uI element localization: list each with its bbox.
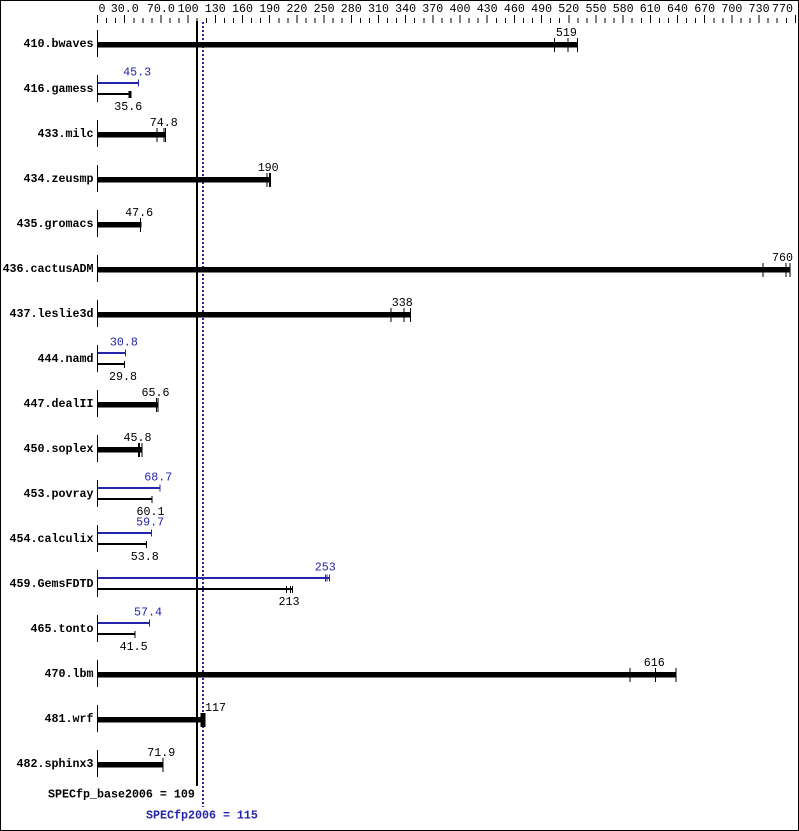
svg-text:465.tonto: 465.tonto <box>31 622 94 636</box>
svg-text:434.zeusmp: 434.zeusmp <box>24 172 94 186</box>
svg-text:41.5: 41.5 <box>120 640 148 654</box>
axis ticks <box>97 15 796 23</box>
svg-text:519: 519 <box>556 26 577 40</box>
svg-text:454.calculix: 454.calculix <box>10 532 94 546</box>
svg-text:453.povray: 453.povray <box>24 487 94 501</box>
svg-text:490: 490 <box>531 2 552 16</box>
svg-text:410.bwaves: 410.bwaves <box>24 37 94 51</box>
svg-text:0: 0 <box>99 2 106 16</box>
svg-text:310: 310 <box>368 2 389 16</box>
svg-text:220: 220 <box>286 2 307 16</box>
svg-text:770: 770 <box>772 2 793 16</box>
svg-text:481.wrf: 481.wrf <box>45 712 94 726</box>
svg-text:45.3: 45.3 <box>123 66 151 80</box>
svg-text:100: 100 <box>178 2 199 16</box>
svg-text:74.8: 74.8 <box>150 116 178 130</box>
svg-text:400: 400 <box>450 2 471 16</box>
svg-text:470.lbm: 470.lbm <box>45 667 94 681</box>
row 437.leslie3d <box>10 296 413 327</box>
row 482.sphinx3 <box>17 746 176 777</box>
svg-text:447.dealII: 447.dealII <box>24 397 94 411</box>
row 447.dealII <box>24 386 170 417</box>
svg-text:190: 190 <box>258 161 279 175</box>
svg-text:30.8: 30.8 <box>110 336 138 350</box>
svg-text:520: 520 <box>558 2 579 16</box>
svg-text:670: 670 <box>694 2 715 16</box>
row 453.povray <box>24 471 173 520</box>
svg-text:190: 190 <box>259 2 280 16</box>
svg-text:730: 730 <box>749 2 770 16</box>
svg-text:416.gamess: 416.gamess <box>24 82 94 96</box>
row 444.namd <box>38 336 138 385</box>
svg-text:160: 160 <box>232 2 253 16</box>
svg-text:580: 580 <box>613 2 634 16</box>
row 410.bwaves <box>24 26 578 57</box>
svg-text:70.0: 70.0 <box>147 2 175 16</box>
svg-text:117: 117 <box>205 701 226 715</box>
svg-text:68.7: 68.7 <box>144 471 172 485</box>
svg-text:482.sphinx3: 482.sphinx3 <box>17 757 94 771</box>
svg-text:550: 550 <box>586 2 607 16</box>
solid reference line SPECfp_base2006 = 109 <box>196 21 198 786</box>
svg-text:71.9: 71.9 <box>147 746 175 760</box>
svg-text:370: 370 <box>422 2 443 16</box>
row 454.calculix <box>10 516 165 565</box>
row 465.tonto <box>31 606 162 655</box>
svg-text:444.namd: 444.namd <box>38 352 94 366</box>
svg-text:450.soplex: 450.soplex <box>24 442 94 456</box>
svg-text:640: 640 <box>667 2 688 16</box>
svg-text:59.7: 59.7 <box>136 516 164 530</box>
svg-text:SPECfp_base2006 = 109: SPECfp_base2006 = 109 <box>48 788 195 802</box>
svg-text:435.gromacs: 435.gromacs <box>17 217 94 231</box>
svg-text:760: 760 <box>772 251 793 265</box>
svg-text:47.6: 47.6 <box>125 206 153 220</box>
svg-text:436.cactusADM: 436.cactusADM <box>3 262 94 276</box>
row 481.wrf <box>45 701 226 732</box>
axis scale labels <box>99 2 794 16</box>
svg-text:57.4: 57.4 <box>134 606 162 620</box>
svg-text:53.8: 53.8 <box>131 550 159 564</box>
row 416.gamess <box>24 66 152 115</box>
svg-text:65.6: 65.6 <box>142 386 170 400</box>
row 434.zeusmp <box>24 161 279 192</box>
svg-text:610: 610 <box>640 2 661 16</box>
svg-text:30.0: 30.0 <box>111 2 139 16</box>
row 470.lbm <box>45 656 677 687</box>
svg-text:437.leslie3d: 437.leslie3d <box>10 307 94 321</box>
row 435.gromacs <box>17 206 154 237</box>
svg-text:340: 340 <box>395 2 416 16</box>
svg-text:SPECfp2006 = 115: SPECfp2006 = 115 <box>146 809 258 823</box>
svg-text:29.8: 29.8 <box>109 370 137 384</box>
svg-text:459.GemsFDTD: 459.GemsFDTD <box>10 577 94 591</box>
row 436.cactusADM <box>3 251 793 282</box>
row 459.GemsFDTD <box>10 561 336 610</box>
svg-text:338: 338 <box>392 296 413 310</box>
svg-text:213: 213 <box>279 595 300 609</box>
row 450.soplex <box>24 431 152 462</box>
svg-text:700: 700 <box>721 2 742 16</box>
svg-text:460: 460 <box>504 2 525 16</box>
svg-text:130: 130 <box>205 2 226 16</box>
dotted reference line SPECfp2006 = 115 <box>202 22 204 807</box>
svg-text:35.6: 35.6 <box>114 100 142 114</box>
svg-text:616: 616 <box>644 656 665 670</box>
svg-text:250: 250 <box>314 2 335 16</box>
svg-text:280: 280 <box>341 2 362 16</box>
svg-text:253: 253 <box>315 561 336 575</box>
row 433.milc <box>38 116 178 147</box>
svg-text:45.8: 45.8 <box>124 431 152 445</box>
svg-text:433.milc: 433.milc <box>38 127 94 141</box>
svg-text:430: 430 <box>477 2 498 16</box>
